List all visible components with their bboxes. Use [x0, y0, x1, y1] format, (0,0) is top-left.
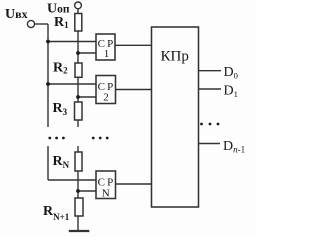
wire D1 [199, 88, 222, 90]
node row1 junction [46, 40, 50, 44]
svg-text:RN+1: RN+1 [43, 204, 70, 222]
ellipsis chain right [92, 137, 95, 140]
svg-text:D1: D1 [224, 84, 238, 100]
node tap2 [76, 95, 80, 99]
wire R1 to R2 [77, 31, 79, 63]
wire R2 to R3 [77, 77, 79, 102]
svg-text:R1: R1 [54, 15, 69, 30]
wire below R3 [77, 120, 79, 127]
terminal Uvx [27, 20, 34, 27]
node tapN [76, 189, 80, 193]
svg-text:КПр: КПр [161, 48, 189, 64]
resistor R1 [75, 14, 82, 32]
wire CP2 out [116, 89, 152, 91]
wire tap1 to CP1 [78, 52, 96, 54]
wire CP1 out [115, 44, 152, 46]
resistor R2 [75, 63, 82, 77]
comparator CP1 box [96, 34, 115, 60]
node tap1 [76, 51, 80, 55]
resistor RN [75, 152, 82, 171]
wire RN to RN+1 [77, 171, 79, 198]
ellipsis outputs [200, 123, 203, 126]
wire Uop to R1 [77, 9, 79, 14]
wire rowN bus to CPN [48, 179, 96, 181]
priority encoder KPr box [152, 27, 199, 207]
wire tapN to CPN [78, 190, 96, 192]
wire D0 [199, 70, 222, 72]
resistor R3 [75, 102, 83, 120]
wire chain resume [77, 146, 79, 152]
terminal Uop [75, 2, 82, 9]
wire row2 bus to CP2 [48, 83, 96, 85]
svg-text:Uвх: Uвх [5, 7, 28, 22]
svg-text:1: 1 [104, 48, 110, 60]
comparator CP2 box [96, 76, 116, 104]
wire input bus upper [47, 24, 49, 127]
svg-text:R2: R2 [53, 61, 68, 76]
wire RN+1 to ground [77, 216, 79, 231]
wire Uvx to bus [35, 23, 48, 25]
svg-text:N: N [102, 187, 110, 199]
wire row1 bus to CP1 [48, 41, 96, 43]
svg-text:D0: D0 [224, 65, 238, 81]
svg-text:Dn-1: Dn-1 [223, 139, 245, 155]
wire tap2 to CP2 [78, 96, 96, 98]
ground [69, 230, 90, 232]
svg-text:R3: R3 [53, 101, 68, 117]
ellipsis chain left [48, 137, 51, 140]
svg-text:RN: RN [53, 154, 70, 170]
wire input bus lower [47, 146, 49, 180]
comparator CPN box [96, 171, 116, 199]
node row2 junction [46, 82, 50, 86]
svg-text:2: 2 [103, 92, 109, 104]
resistor RN+1 [75, 198, 83, 216]
wire CPN out [116, 183, 152, 185]
wire Dn-1 [199, 143, 221, 145]
